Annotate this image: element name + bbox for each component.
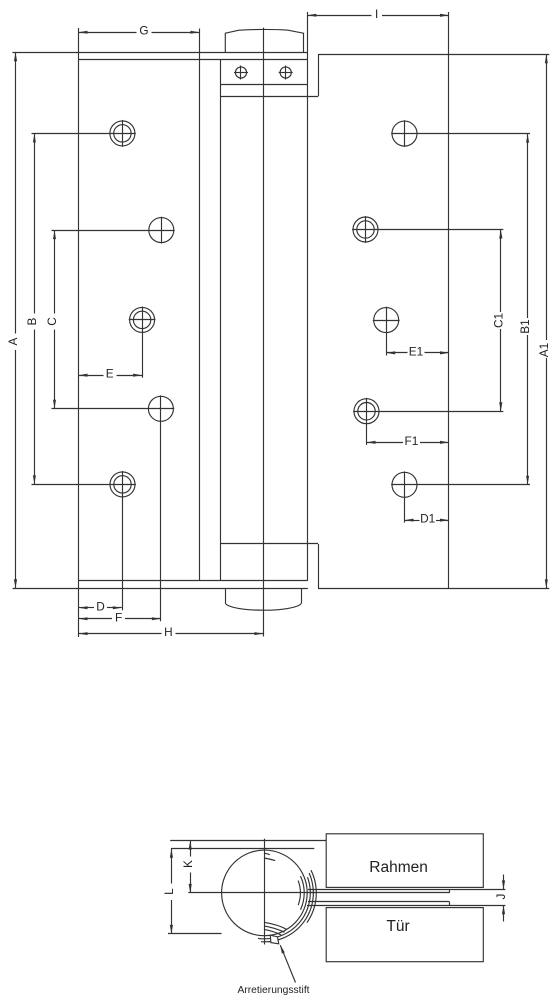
dimension J [494, 875, 508, 922]
hole R4 (double) [354, 399, 379, 424]
bracket lower band bottom [221, 96, 318, 98]
dimension B [25, 133, 39, 484]
dimension D1 [405, 512, 450, 526]
bottom notch vertical [318, 544, 320, 589]
ext line hole L1 to B + crosshair [32, 133, 136, 135]
leaf line door-side bottom (J ext) [307, 905, 505, 907]
Rahmen box [326, 834, 483, 888]
svg-text:K: K [181, 860, 195, 868]
dimension D [79, 599, 122, 613]
screw S2 [279, 66, 293, 80]
dimension L [162, 849, 176, 934]
leaf line door-side top [308, 901, 449, 903]
Arretierungsstift pin [270, 935, 278, 944]
bottom cap arc [225, 603, 301, 610]
dimension E [79, 367, 143, 381]
hole L3 (double) [130, 307, 155, 332]
hole L4 crosshair + ext down to F [52, 408, 175, 410]
ext line hole R1 to B1 + crosshair [391, 133, 530, 135]
right plate bottom edge + A1 extension [318, 588, 549, 590]
svg-text:D: D [96, 599, 105, 613]
Tür box [326, 908, 483, 962]
ext line hole R4 to C1 + crosshair + ext down to F1 [353, 411, 503, 413]
right plate right edge (also I ext) [448, 12, 450, 588]
vertical centerline of barrel (ext for H) [263, 28, 265, 637]
top band lower line [79, 59, 308, 61]
barrel right edge (also I extension) [307, 12, 309, 580]
svg-text:Rahmen: Rahmen [369, 859, 428, 876]
svg-text:Arretierungsstift: Arretierungsstift [237, 985, 309, 996]
hole L4 [148, 396, 173, 421]
hole R3 [374, 308, 399, 333]
spring coil bottom curl 3 [264, 929, 282, 935]
svg-text:J: J [494, 894, 508, 900]
svg-text:B: B [25, 317, 39, 325]
dimension H [79, 625, 264, 639]
barrel left edge [220, 60, 222, 581]
spring coil bottom curl 2 [264, 926, 285, 932]
left leaf plate left edge (also ext line for G,D,F,H) [78, 28, 80, 637]
wrap arc 3 [307, 870, 316, 923]
bottom: plate bottom edge + A extension [13, 588, 308, 590]
dimension F1 [367, 434, 450, 448]
bottom cap sides [225, 588, 227, 603]
top cap nut [225, 29, 303, 52]
wrap arc 2 [261, 873, 313, 942]
dimension C [45, 230, 59, 409]
dimension G [79, 24, 200, 38]
svg-text:B1: B1 [518, 319, 532, 333]
spring coil bottom curl 1 [264, 922, 287, 929]
bottom view: second line (top of rolled leaf, L ext) [171, 848, 314, 850]
right plate top edge + A1 extension [318, 54, 549, 56]
leaf line frame-side bottom [309, 892, 449, 894]
spring coil arc right inner [298, 881, 300, 906]
bottom band upper line [79, 580, 308, 582]
hole R1 [392, 121, 417, 146]
leaf end cap frame-side [449, 889, 451, 893]
svg-text:H: H [164, 625, 173, 639]
bottom view: top reference line (K/L top ext) [170, 840, 326, 842]
ext line hole L5 to B + crosshair + ext down to D [32, 484, 136, 486]
svg-text:F: F [115, 610, 122, 624]
hole R3 crosshair + ext down to E1 [373, 320, 400, 322]
svg-text:E: E [106, 367, 114, 381]
hole L5 (double) [110, 472, 135, 497]
svg-text:A1: A1 [537, 343, 551, 357]
svg-text:D1: D1 [420, 512, 435, 526]
top notch vertical of right plate [318, 54, 320, 96]
leaf line frame-side top (J ext) [308, 889, 505, 891]
screw S1 [234, 66, 248, 80]
dimension F [79, 610, 161, 624]
barrel cross-section circle [222, 850, 308, 936]
hole L3 crosshair + ext down to E [129, 319, 156, 321]
svg-text:F1: F1 [405, 434, 419, 448]
dimension A1 [537, 54, 551, 588]
leaf end cap door-side [449, 902, 451, 906]
dimension C1 [491, 230, 505, 412]
dimension I [307, 7, 449, 21]
hole L1 (double) [110, 121, 135, 146]
hole R5 [392, 472, 417, 497]
ext line hole L2 to C + crosshair [52, 230, 175, 232]
ext line hole R5 to B1 + crosshair + ext down to D1 [391, 484, 530, 486]
leader line to pin [280, 945, 295, 982]
spring coil arc right outer [301, 876, 305, 910]
dimension A [6, 52, 20, 588]
svg-text:C1: C1 [491, 313, 505, 328]
left leaf plate right edge (ext for G) [199, 29, 201, 581]
top band: plate top edge + A extension [13, 52, 308, 54]
svg-text:Tür: Tür [386, 918, 409, 935]
L bottom extension line [168, 933, 222, 935]
svg-text:I: I [375, 7, 378, 21]
dimension K [181, 841, 195, 893]
spring inner tick 2 [264, 858, 275, 861]
dimension E1 [386, 344, 449, 358]
svg-text:C: C [45, 317, 59, 326]
vertical centerline [264, 839, 266, 945]
svg-text:G: G [139, 24, 148, 38]
dimension B1 [518, 134, 532, 485]
svg-text:A: A [6, 337, 20, 345]
svg-text:L: L [162, 888, 176, 895]
wrap arc 1 [258, 877, 310, 939]
bottom notch horizontal across barrel [221, 543, 318, 545]
hole L2 [149, 218, 174, 243]
bracket screw band bottom [221, 84, 308, 86]
ext line hole R2 to C1 + crosshair [352, 229, 503, 231]
hole R2 (double) [353, 217, 378, 242]
spring inner tick 1 [265, 853, 270, 855]
horizontal centerline (K bottom ext) [188, 892, 315, 894]
svg-text:E1: E1 [409, 344, 423, 358]
